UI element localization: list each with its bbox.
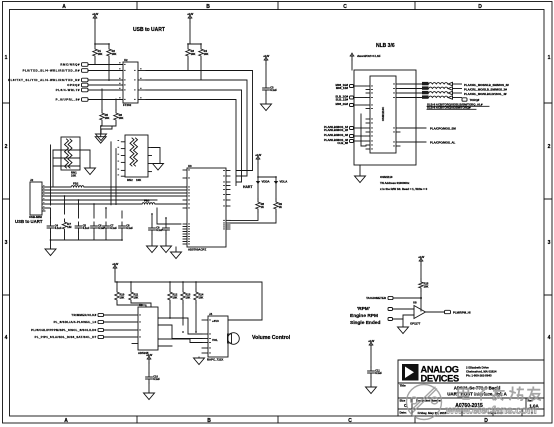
svg-text:OP1177: OP1177	[410, 322, 421, 326]
svg-text:10K: 10K	[120, 295, 125, 299]
svg-text:0.1uF: 0.1uF	[110, 226, 117, 230]
svg-text:1K: 1K	[261, 205, 264, 209]
svg-text:PL/8/CHL/PPPPM/SPL_8/SCL_8/SCL: PL/8/CHL/PPPPM/SPL_8/SCL_8/SCL/LD0	[31, 328, 96, 332]
svg-text:dword/Ctrl=4 LSF: dword/Ctrl=4 LSF	[357, 54, 381, 58]
svg-text:RAPC_722X: RAPC_722X	[207, 358, 223, 362]
svg-text:D: D	[478, 4, 482, 10]
svg-text:FB3: FB3	[144, 199, 150, 203]
svg-text:B: B	[207, 418, 211, 424]
svg-text:P_8/UPRL_8#: P_8/UPRL_8#	[56, 98, 80, 102]
svg-text:VDLA: VDLA	[280, 180, 288, 184]
svg-text:C: C	[348, 418, 352, 424]
svg-text:x is the R/W bit. Read = 1, W: x is the R/W bit. Read = 1, Write = 0	[380, 187, 428, 191]
svg-text:CLB_8#: CLB_8#	[337, 141, 348, 145]
svg-text:NLB 3/6: NLB 3/6	[376, 43, 395, 49]
svg-text:TRIMMER/CLK#: TRIMMER/CLK#	[71, 313, 96, 317]
svg-text:VOL: VOL	[212, 338, 218, 342]
svg-text:PLA/CRL_MOS/SLB_SM/MOS_4#: PLA/CRL_MOS/SLB_SM/MOS_4#	[464, 83, 509, 87]
svg-text:RN2: RN2	[127, 178, 133, 182]
svg-text:SLB_1S#: SLB_1S#	[336, 97, 349, 101]
svg-text:PL8/TXD_SL/4-WRL/RS/TXD_R#: PL8/TXD_SL/4-WRL/RS/TXD_R#	[23, 69, 80, 73]
svg-text:USB to UART: USB to UART	[15, 219, 43, 224]
svg-text:10K: 10K	[204, 52, 209, 56]
svg-text:M08_2G#: M08_2G#	[336, 102, 349, 106]
svg-text:Date:: Date:	[400, 411, 407, 415]
svg-text:PL_P/P1_8/LA/SDL_D/S8_SAT/SCL_: PL_P/P1_8/LA/SDL_D/S8_SAT/SCL_D7	[35, 335, 97, 339]
svg-text:10K: 10K	[186, 295, 191, 299]
svg-text:'RPM': 'RPM'	[357, 306, 370, 312]
svg-text:PL8/TXT_SL/Y/D_AL/4-WRL/RS/TXD: PL8/TXT_SL/Y/D_AL/4-WRL/RS/TXD_R#	[8, 78, 80, 82]
svg-text:4: 4	[548, 335, 551, 341]
svg-text:U2: U2	[124, 58, 128, 62]
svg-text:PLA/CRL_MO/SLB_SM/MOS_3#: PLA/CRL_MO/SLB_SM/MOS_3#	[464, 88, 507, 92]
svg-text:PLA/SLB/MOS_3#: PLA/SLB/MOS_3#	[324, 133, 349, 137]
svg-text:PLA/CPO/MOS_AL: PLA/CPO/MOS_AL	[430, 141, 456, 145]
svg-text:TORQ#: TORQ#	[470, 98, 480, 102]
svg-text:0.1uF: 0.1uF	[55, 226, 62, 230]
svg-text:2: 2	[548, 144, 551, 150]
svg-text:A: A	[62, 4, 66, 10]
svg-text:10K: 10K	[424, 284, 429, 288]
svg-text:0.1uF: 0.1uF	[153, 377, 160, 381]
svg-text:PLA/CRL_MO/SLB/LD/1SOL_4#: PLA/CRL_MO/SLB/LD/1SOL_4#	[464, 92, 507, 96]
svg-text:B: B	[206, 4, 210, 10]
svg-text:0.1uF: 0.1uF	[126, 226, 133, 230]
svg-text:U3: U3	[188, 164, 192, 168]
svg-text:3: 3	[5, 240, 8, 246]
svg-text:+3.3V: +3.3V	[255, 155, 262, 157]
svg-text:+3.3V: +3.3V	[187, 14, 194, 16]
svg-text:PLA/SLB/MOS_2#: PLA/SLB/MOS_2#	[324, 128, 349, 132]
svg-text:10K: 10K	[119, 116, 124, 120]
svg-text:PLM/RPM_HI: PLM/RPM_HI	[453, 311, 471, 315]
svg-text:1: 1	[548, 55, 551, 61]
svg-text:PL8/4-WRL7#: PL8/4-WRL7#	[56, 88, 80, 92]
svg-text:J2: J2	[30, 178, 34, 182]
svg-text:OSM1110: OSM1110	[380, 175, 393, 179]
svg-text:2: 2	[5, 144, 8, 150]
svg-text:10K: 10K	[199, 295, 204, 299]
svg-text:+3.3V: +3.3V	[146, 355, 153, 357]
svg-text:FB2: FB2	[73, 182, 79, 186]
svg-text:+3.3V: +3.3V	[92, 14, 99, 16]
svg-text:10K: 10K	[112, 52, 117, 56]
svg-text:FT232: FT232	[123, 103, 132, 107]
svg-text:10K: 10K	[134, 295, 139, 299]
svg-text:Title: Title	[400, 384, 406, 388]
svg-text:DEVICES: DEVICES	[421, 373, 460, 383]
svg-text:Engine RPM: Engine RPM	[350, 313, 378, 319]
svg-text:0.1uF: 0.1uF	[83, 226, 90, 230]
svg-text:Friday, May 01, 2015: Friday, May 01, 2015	[418, 411, 447, 415]
svg-text:Single Ended: Single Ended	[350, 320, 380, 326]
svg-text:www.elecfans.com: www.elecfans.com	[445, 405, 536, 417]
svg-text:10K: 10K	[173, 295, 178, 299]
svg-text:J4: J4	[209, 312, 213, 316]
svg-text:+3.3V: +3.3V	[418, 257, 425, 259]
svg-text:Size: Size	[400, 399, 406, 403]
svg-text:M08_1S#: M08_1S#	[336, 86, 349, 90]
svg-text:OSM1110C: OSM1110C	[381, 107, 385, 121]
svg-text:TN Address 0100000x: TN Address 0100000x	[380, 181, 410, 185]
svg-text:+3.3V: +3.3V	[368, 341, 375, 343]
svg-text:U8: U8	[413, 301, 417, 305]
svg-text:VDDA: VDDA	[262, 180, 270, 184]
svg-text:4: 4	[5, 335, 8, 341]
svg-text:0.1uF: 0.1uF	[375, 371, 382, 375]
svg-text:PL_8/SDL/A/4-PL8/SHL_L0: PL_8/SDL/A/4-PL8/SHL_L0	[54, 320, 97, 324]
svg-text:10K: 10K	[98, 52, 103, 56]
svg-text:AD5700ACPZ: AD5700ACPZ	[188, 248, 206, 252]
svg-text:1M: 1M	[67, 225, 72, 229]
svg-text:HART: HART	[243, 185, 253, 189]
svg-text:+3.3V: +3.3V	[112, 264, 119, 266]
svg-text:+3.3V: +3.3V	[263, 56, 270, 58]
svg-text:U6: U6	[139, 303, 143, 307]
svg-text:USB to UART: USB to UART	[133, 27, 165, 33]
svg-text:10K: 10K	[105, 116, 110, 120]
svg-text:10K: 10K	[191, 52, 196, 56]
svg-text:PLA/CPO/MOS_SM: PLA/CPO/MOS_SM	[430, 127, 456, 131]
svg-text:A: A	[64, 418, 68, 424]
svg-text:RMC/NRQ#: RMC/NRQ#	[60, 63, 80, 67]
svg-text:3: 3	[548, 240, 551, 246]
svg-text:1: 1	[5, 55, 8, 61]
svg-text:C: C	[343, 4, 347, 10]
svg-text:D: D	[484, 418, 488, 424]
svg-text:OPRQ#: OPRQ#	[67, 83, 80, 87]
svg-text:Ph: 1-800-262-5643: Ph: 1-800-262-5643	[466, 374, 492, 378]
svg-text:Volume Control: Volume Control	[252, 335, 291, 341]
svg-text:0.1uF: 0.1uF	[270, 88, 277, 92]
svg-text:1K: 1K	[279, 205, 282, 209]
svg-text:+3V3: +3V3	[212, 319, 219, 323]
svg-text:TACHOMETER: TACHOMETER	[366, 296, 386, 300]
